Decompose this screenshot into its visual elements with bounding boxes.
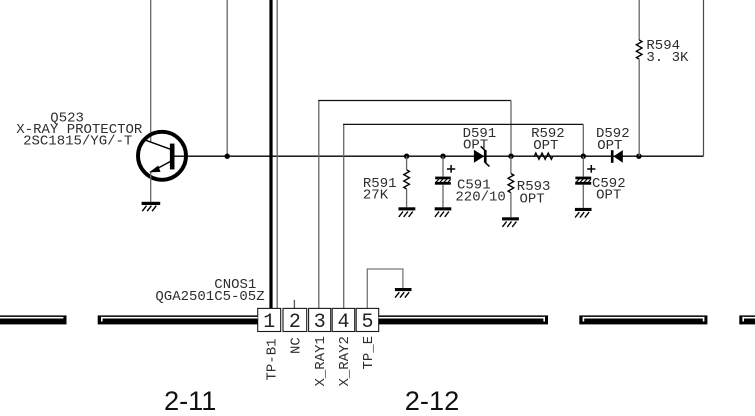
svg-text:220/10: 220/10 — [455, 189, 505, 205]
svg-text:OPT: OPT — [533, 138, 558, 154]
transistor Q523 emitter diagonal — [150, 162, 170, 173]
connector CNOS1 pin 2 box — [283, 308, 307, 331]
resistor R594 — [636, 0, 642, 156]
svg-text:TP-B1: TP-B1 — [264, 338, 280, 380]
wire main horizontal net — [175, 155, 704, 157]
wire pin4 net down to main wire — [582, 124, 584, 156]
wire collector vertical to top edge — [150, 0, 152, 142]
transistor Q523 emitter arrow — [149, 166, 160, 173]
board edge bar D — [579, 315, 707, 324]
svg-text:27K: 27K — [363, 188, 389, 204]
resistor R592 — [534, 153, 553, 159]
node junction dot x=583 — [581, 154, 586, 159]
node junction dot x=639 — [636, 154, 641, 159]
node junction dot x=227 — [225, 154, 230, 159]
connector CNOS1 pin 4 box — [332, 308, 355, 331]
diode D592 — [611, 150, 623, 163]
transistor Q523 collector diagonal — [145, 140, 171, 149]
capacitor C592 — [575, 156, 595, 208]
board edge bar E — [739, 315, 755, 324]
wire pin5 net up and over — [367, 269, 403, 308]
bus CN thick line — [269, 0, 272, 308]
wire pin3 net horizontal — [318, 100, 511, 102]
node junction dot x=511 — [508, 154, 513, 159]
svg-text:QGA2501C5-05Z: QGA2501C5-05Z — [155, 289, 264, 305]
connector CNOS1 pin 1 box — [258, 308, 281, 331]
wire pin3 net down to main wire — [510, 101, 512, 157]
svg-text:5: 5 — [361, 311, 373, 334]
svg-text:X_RAY1: X_RAY1 — [313, 336, 329, 386]
connector CNOS1 pin 3 box — [309, 308, 331, 331]
board edge bar A — [0, 315, 67, 324]
svg-text:2-11: 2-11 — [164, 385, 216, 416]
board edge bar C — [379, 315, 548, 324]
svg-text:OPT: OPT — [520, 191, 545, 207]
svg-text:X_RAY2: X_RAY2 — [337, 336, 353, 386]
svg-text:4: 4 — [337, 311, 349, 334]
svg-text:2SC1815/YG/-T: 2SC1815/YG/-T — [23, 134, 132, 150]
transistor Q523 base bar — [170, 144, 175, 170]
ground under C592 — [575, 208, 592, 218]
wire emitter to ground — [150, 172, 152, 202]
svg-text:TP_E: TP_E — [361, 336, 377, 370]
capacitor C591 — [435, 154, 455, 208]
resistor R593 — [508, 156, 514, 217]
svg-text:OPT: OPT — [463, 138, 488, 154]
svg-text:2: 2 — [289, 311, 301, 334]
wire pin4 net vertical — [343, 124, 345, 308]
svg-text:1: 1 — [263, 311, 275, 334]
svg-text:OPT: OPT — [596, 188, 621, 204]
wire stub pin2 NC — [293, 300, 295, 309]
wire pin4 net horizontal — [343, 123, 583, 125]
svg-text:3: 3 — [314, 311, 326, 334]
svg-text:2-12: 2-12 — [405, 385, 459, 416]
wire right edge vertical to top — [703, 0, 705, 156]
ground at pin5 net — [395, 288, 412, 298]
svg-text:OPT: OPT — [597, 138, 622, 154]
diode D591 zener — [474, 146, 490, 166]
ground under R593 — [502, 217, 519, 227]
svg-text:NC: NC — [289, 337, 305, 354]
ground under R591 — [399, 207, 416, 217]
ground under Q523 — [142, 202, 161, 211]
transistor Q523 body circle — [138, 132, 186, 180]
wire vertical net to top at x=227 — [226, 0, 228, 156]
bus CN thin line — [276, 0, 278, 308]
connector CNOS1 pin 5 box — [356, 308, 379, 331]
wire pin3 net vertical — [318, 101, 320, 309]
ground under C591 — [435, 207, 452, 217]
svg-text:3. 3K: 3. 3K — [646, 50, 689, 66]
board edge bar B — [98, 315, 258, 324]
resistor R591 — [404, 154, 410, 208]
